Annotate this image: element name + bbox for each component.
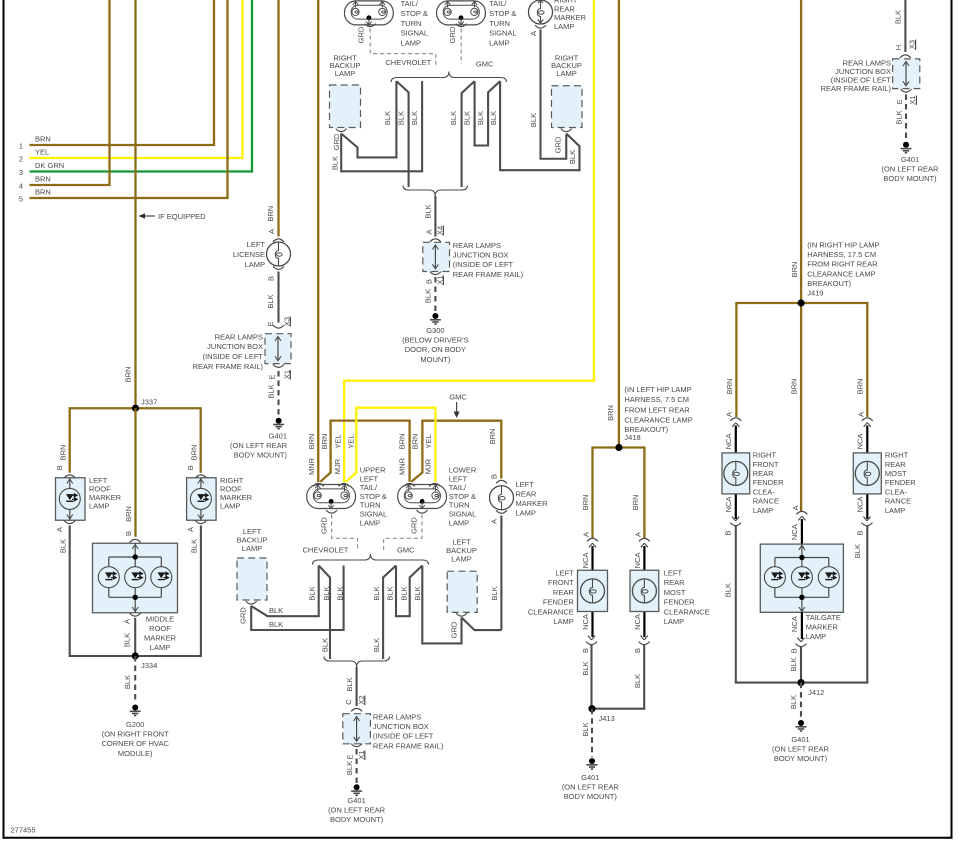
svg-text:TAILGATE: TAILGATE [806,613,841,622]
wire 1 BRN [30,0,215,145]
svg-text:A: A [856,412,865,417]
svg-text:LEFT: LEFT [360,474,379,483]
svg-text:TAIL/: TAIL/ [401,0,419,8]
svg-text:JUNCTION BOX: JUNCTION BOX [453,251,509,260]
svg-text:BLK: BLK [122,633,131,647]
svg-text:LAMP: LAMP [242,544,262,553]
svg-text:REAR: REAR [885,460,906,469]
svg-text:BLK: BLK [449,111,458,125]
svg-text:BLK: BLK [489,111,498,125]
svg-text:REAR FRAME RAIL): REAR FRAME RAIL) [193,362,264,371]
svg-text:BLK: BLK [413,586,422,600]
svg-text:A: A [186,527,195,532]
svg-text:LAMP: LAMP [554,22,574,31]
connectors B right pair [730,517,741,526]
svg-text:REAR: REAR [664,578,685,587]
svg-text:H: H [894,45,903,50]
connector box1 bottom [273,364,284,367]
wire BLK gmc jumper U [475,81,501,145]
svg-text:A: A [55,527,64,532]
svg-text:BRN: BRN [307,434,316,450]
wire BRN J419 branches [736,303,867,417]
wire YEL jumper lamp1-lamp2 [346,408,436,482]
svg-text:DOOR, ON BODY: DOOR, ON BODY [405,345,466,354]
svg-text:(ON LEFT REAR: (ON LEFT REAR [328,806,386,815]
connector right roof top [195,475,206,478]
svg-text:(INSIDE OF LEFT: (INSIDE OF LEFT [203,352,264,361]
wire BRN jumper lamp1-lamp2 (chevrolet) [320,421,409,482]
svg-text:X1: X1 [908,95,917,104]
svg-text:GRD: GRD [319,517,328,534]
svg-text:BRN: BRN [58,445,67,461]
lamp TAIL/STOP & TURN SIGNAL LAMP (chevrolet) [345,1,394,25]
svg-text:A: A [267,229,276,234]
svg-text:A: A [424,229,433,234]
svg-text:GMC: GMC [397,546,415,555]
svg-text:CLEA-: CLEA- [885,487,908,496]
svg-text:TAIL/: TAIL/ [360,483,378,492]
svg-text:LEFT: LEFT [555,569,574,578]
junction box REAR LAMPS JUNCTION BOX (center) [423,242,450,271]
svg-text:FROM LEFT REAR: FROM LEFT REAR [624,405,690,414]
svg-text:RANCE: RANCE [885,497,911,506]
node J412 [797,679,804,686]
node J418 [615,444,622,451]
wire BLK dashed to G401 (J412) [800,683,802,719]
wire 5 BRN [30,0,228,198]
wire BLK tailgate to J412 [800,647,802,683]
svg-text:TURN: TURN [489,19,510,28]
wire BLK J334 bus [70,526,201,657]
wire BLK gmc jumper U (middle) [396,566,422,617]
svg-text:MARKER: MARKER [516,499,549,508]
svg-text:CLEARANCE LAMP: CLEARANCE LAMP [624,416,692,425]
ground G401 (J412) [796,720,807,731]
svg-text:BLK: BLK [189,539,198,553]
connector license top [273,239,284,242]
svg-text:BLK: BLK [372,638,381,652]
svg-text:GRD: GRD [448,26,457,43]
svg-text:MODULE): MODULE) [118,749,153,758]
svg-text:BLK: BLK [895,110,904,124]
ground G401 (J413) [587,758,598,769]
svg-text:MOUNT): MOUNT) [420,355,450,364]
svg-text:B: B [856,530,865,535]
svg-text:BRN: BRN [606,405,615,421]
wire GRD backup-left to brace [251,566,343,631]
svg-text:LEFT: LEFT [516,480,535,489]
svg-text:BLK: BLK [386,586,395,600]
wire BRN J418 branches [593,448,645,540]
svg-text:FENDER: FENDER [753,478,784,487]
svg-text:B: B [633,648,642,653]
svg-text:A: A [582,532,591,537]
svg-text:FENDER: FENDER [543,598,574,607]
svg-text:E: E [346,754,355,759]
svg-text:BLK: BLK [123,675,132,689]
wire BLK chevy 2 [396,81,408,187]
svg-text:LAMP: LAMP [360,518,380,527]
svg-text:NCA: NCA [856,434,865,450]
ground G401 (top right) [901,142,912,153]
svg-text:NCA: NCA [633,614,642,630]
wire BLK to J413 [590,645,592,709]
wire GRD dashed lamp A [370,29,436,67]
svg-text:MARKER: MARKER [554,13,587,22]
svg-text:B: B [124,531,133,536]
lamp RIGHT REAR MOST FENDER CLEARANCE LAMP [853,453,881,494]
svg-text:MARKER: MARKER [806,623,839,632]
svg-text:J337: J337 [141,398,157,407]
svg-text:BRN: BRN [631,495,640,511]
wire 3 DK GRN [30,0,253,172]
svg-text:(IN LEFT HIP LAMP: (IN LEFT HIP LAMP [624,385,691,394]
svg-text:G401: G401 [791,735,809,744]
svg-text:(ON LEFT REAR: (ON LEFT REAR [230,441,288,450]
connector GRD lamp1 [326,510,337,513]
svg-text:LAMP: LAMP [451,555,471,564]
svg-text:BLK: BLK [893,10,902,24]
svg-text:BLK: BLK [336,586,345,600]
svg-text:YEL: YEL [35,148,49,157]
svg-text:NCA: NCA [724,434,733,450]
connector GRD lamp B [456,24,467,27]
lamp RIGHT ROOF MARKER LAMP [187,478,217,521]
connectors B left pair [586,636,597,645]
svg-text:BRN: BRN [189,445,198,461]
svg-text:RIGHT: RIGHT [885,451,909,460]
svg-text:BLK: BLK [307,586,316,600]
svg-text:BLK: BLK [476,111,485,125]
connector box4 bottom [351,744,362,747]
svg-text:3: 3 [19,168,23,177]
svg-text:TURN: TURN [360,501,381,510]
svg-text:A: A [489,519,498,524]
svg-text:IF EQUIPPED: IF EQUIPPED [158,212,206,221]
svg-text:YEL: YEL [424,434,433,448]
svg-text:BLK: BLK [490,586,499,600]
svg-text:LEFT: LEFT [449,474,468,483]
svg-text:STOP &: STOP & [360,492,387,501]
wire GRD dashed lamp2 [384,515,422,552]
junction box REAR LAMPS JUNCTION BOX (left) [265,334,291,364]
svg-text:LAMP: LAMP [245,260,265,269]
svg-text:J412: J412 [808,688,824,697]
svg-text:YEL: YEL [346,434,355,448]
svg-text:BLK: BLK [269,606,283,615]
svg-text:BRN: BRN [35,188,51,197]
svg-text:G401: G401 [581,773,599,782]
svg-text:JUNCTION BOX: JUNCTION BOX [373,722,429,731]
svg-text:BLK: BLK [58,539,67,553]
svg-text:277455: 277455 [11,826,36,835]
wire BLK dashed to G401 (J413) [591,709,593,757]
svg-text:CLEA-: CLEA- [753,487,776,496]
svg-text:BLK: BLK [322,586,331,600]
svg-text:(ON LEFT REAR: (ON LEFT REAR [882,165,940,174]
svg-text:YEL: YEL [333,434,342,448]
svg-text:CLEARANCE: CLEARANCE [664,607,710,616]
lamp TAILGATE MARKER LAMP [760,544,843,612]
svg-text:(IN RIGHT HIP LAMP: (IN RIGHT HIP LAMP [807,241,879,250]
svg-text:REAR LAMPS: REAR LAMPS [453,241,501,250]
svg-text:B: B [266,276,275,281]
svg-text:A: A [725,412,734,417]
brace middle bottom merge [324,657,390,668]
svg-text:(ON RIGHT FRONT: (ON RIGHT FRONT [102,730,169,739]
svg-text:STOP &: STOP & [401,9,428,18]
connector middle roof bottom [130,613,141,616]
wire BLK dashed to G401 (bottom middle) [356,749,358,783]
svg-text:JUNCTION BOX: JUNCTION BOX [207,342,263,351]
lamp LEFT REAR MOST FENDER CLEARANCE LAMP [630,570,659,611]
svg-text:(INSIDE OF LEFT: (INSIDE OF LEFT [373,732,434,741]
svg-text:(ON LEFT REAR: (ON LEFT REAR [772,745,830,754]
svg-text:SIGNAL: SIGNAL [401,29,429,38]
svg-text:J418: J418 [624,433,640,442]
svg-text:5: 5 [19,195,23,204]
svg-text:REAR LAMPS: REAR LAMPS [215,332,263,341]
svg-text:BLK: BLK [383,111,392,125]
connector left roof top [64,475,75,478]
svg-text:A: A [633,532,642,537]
svg-text:GMC: GMC [449,393,467,402]
svg-text:MJR: MJR [333,458,342,474]
svg-text:A: A [122,619,131,624]
wire BLK chevy2 (middle) [319,566,330,660]
svg-text:BLK: BLK [266,294,275,308]
svg-text:BLK: BLK [424,289,433,303]
lamp LEFT FRONT REAR FENDER CLEARANCE LAMP [578,570,608,611]
svg-text:BLK: BLK [581,722,590,736]
wire BLK dashed to G200 [134,656,136,702]
wire GRD backup1 to brace [341,81,396,157]
svg-text:BRN: BRN [266,206,275,222]
svg-text:RIGHT: RIGHT [753,451,777,460]
svg-text:CHEVROLET: CHEVROLET [385,58,431,67]
svg-text:LAMP: LAMP [885,506,905,515]
wire J337 branch bus [70,408,201,472]
svg-text:FROM RIGHT REAR: FROM RIGHT REAR [807,260,878,269]
svg-text:BRN: BRN [35,135,51,144]
svg-text:BLK: BLK [396,111,405,125]
svg-text:FENDER: FENDER [885,478,916,487]
svg-text:TAIL/: TAIL/ [489,0,507,8]
svg-text:GRD: GRD [332,133,341,150]
svg-text:REAR: REAR [553,588,574,597]
wire 4 BRN [30,0,110,185]
svg-text:DK GRN: DK GRN [35,161,64,170]
lamp RIGHT REAR MARKER LAMP (top) [529,0,553,24]
wire NCA to tailgate lamp [801,519,803,544]
svg-text:LAMP: LAMP [220,502,240,511]
lamp LEFT REAR MARKER LAMP [496,480,507,483]
svg-text:B: B [424,279,433,284]
svg-text:SIGNAL: SIGNAL [449,510,477,519]
svg-text:(BELOW DRIVER'S: (BELOW DRIVER'S [402,336,468,345]
svg-text:REAR FRAME RAIL): REAR FRAME RAIL) [453,270,524,279]
svg-text:1: 1 [19,142,23,151]
svg-text:C: C [344,699,353,705]
svg-text:E: E [267,374,276,379]
svg-text:BLK: BLK [267,384,276,398]
wire BRN to middle roof marker [134,408,136,536]
svg-text:LAMP: LAMP [806,632,826,641]
svg-text:BODY MOUNT): BODY MOUNT) [774,754,828,763]
svg-text:BLK: BLK [345,761,354,775]
svg-text:BRN: BRN [124,506,133,522]
svg-text:BLK: BLK [529,113,538,127]
wire BLK gmc 1 [462,81,475,187]
lamp LOWER LEFT TAIL/STOP & TURN SIGNAL LAMP [398,485,447,509]
connector B tailgate [796,638,807,647]
svg-text:(INSIDE OF LEFT: (INSIDE OF LEFT [453,260,514,269]
svg-text:BLK: BLK [372,586,381,600]
svg-text:BRN: BRN [790,379,799,395]
svg-text:B: B [723,530,732,535]
svg-text:G300: G300 [426,326,444,335]
svg-text:NCA: NCA [856,497,865,513]
svg-text:MIDDLE: MIDDLE [146,615,174,624]
svg-text:BRN: BRN [123,367,132,383]
wire BLK marker to backup2 [541,30,567,159]
svg-text:BLK: BLK [581,661,590,675]
svg-text:FENDER: FENDER [664,598,695,607]
lamp UPPER LEFT TAIL/STOP & TURN SIGNAL LAMP [307,485,356,509]
wire BRN trunk to J337 [134,0,136,408]
svg-text:BLK: BLK [269,620,283,629]
svg-text:LAMP: LAMP [335,69,355,78]
svg-text:BRN: BRN [581,495,590,511]
svg-text:FRONT: FRONT [753,460,779,469]
lamp LEFT LICENSE LAMP [267,242,291,266]
ground G401 (bottom middle) [351,784,362,795]
svg-text:BODY MOUNT): BODY MOUNT) [234,451,288,460]
wire GRD dashed lamp1 [332,515,358,552]
ground G300 [430,313,441,324]
svg-text:BODY MOUNT): BODY MOUNT) [883,174,937,183]
svg-text:REAR FRAME RAIL): REAR FRAME RAIL) [373,741,444,750]
svg-text:HARNESS, 17.5 CM: HARNESS, 17.5 CM [807,250,876,259]
wire BLK middle roof to J334 [134,618,136,656]
wire BLK dashed to G300 [434,277,436,312]
svg-text:LICENSE: LICENSE [233,250,265,259]
wire BRN gmc segment lamp2 to rear marker [411,421,501,482]
svg-text:REAR FRAME RAIL): REAR FRAME RAIL) [821,84,892,93]
svg-text:J413: J413 [599,714,615,723]
svg-text:SIGNAL: SIGNAL [489,29,517,38]
connector GRD lamp A [365,24,376,27]
lamp MIDDLE ROOF MARKER LAMP [93,543,178,613]
svg-text:CHEVROLET: CHEVROLET [303,546,349,555]
svg-text:LAMP: LAMP [89,502,109,511]
svg-text:CORNER OF HVAC: CORNER OF HVAC [102,739,170,748]
node J334 [132,652,139,659]
svg-text:BRN: BRN [410,434,419,450]
svg-text:CLEARANCE LAMP: CLEARANCE LAMP [807,269,875,278]
junction box REAR LAMPS JUNCTION BOX (top right) [893,59,920,89]
svg-text:GMC: GMC [476,60,494,69]
svg-text:GRD: GRD [238,607,247,624]
svg-text:LAMP: LAMP [489,38,509,47]
wire BLK right junction chain [904,0,906,52]
svg-text:LAMP: LAMP [753,506,773,515]
wire BLK gmc1 (middle) [383,566,396,660]
ground G401 (license chain) [273,418,284,429]
wire GRD dashed lamp B [460,29,462,65]
wire BLK to junction box C/X2 [356,667,358,706]
wire BLK right pair to J412 [736,526,868,683]
wire BRN to J419 [800,0,802,303]
svg-text:(ON LEFT REAR: (ON LEFT REAR [562,782,620,791]
svg-text:LAMP: LAMP [553,617,573,626]
svg-text:CLEARANCE: CLEARANCE [528,607,574,616]
svg-text:B: B [581,648,590,653]
svg-text:G401: G401 [269,431,287,440]
connector license bottom [273,266,284,269]
svg-text:LAMP: LAMP [556,69,576,78]
connector box2 bottom [430,272,441,275]
svg-text:HARNESS, 7.5 CM: HARNESS, 7.5 CM [624,395,689,404]
svg-text:MOST: MOST [664,588,686,597]
svg-text:REAR: REAR [753,469,774,478]
svg-text:BLK: BLK [568,150,577,164]
svg-text:B: B [55,465,64,470]
svg-text:J419: J419 [807,289,823,298]
svg-text:BLK: BLK [853,544,862,558]
svg-text:SIGNAL: SIGNAL [360,510,388,519]
svg-text:G200: G200 [126,720,144,729]
svg-text:BLK: BLK [345,677,354,691]
node J419 [798,299,805,306]
svg-text:4: 4 [19,182,23,191]
svg-text:MNR: MNR [397,457,406,475]
svg-text:RANCE: RANCE [753,497,779,506]
node J337 [132,405,139,412]
svg-text:BRN: BRN [725,379,734,395]
svg-text:2: 2 [19,155,23,164]
svg-text:GRD: GRD [553,136,562,153]
brace bottom merge [403,186,467,197]
svg-text:BODY MOUNT): BODY MOUNT) [330,815,384,824]
wire BLK backup-right to marker [462,618,502,631]
lamp LEFT ROOF MARKER LAMP [56,478,86,521]
wire BLK to junction box A/X4 [434,196,436,237]
wire NCA through left clearance lamps [591,546,593,637]
wire BRN to license lamp [277,0,279,237]
svg-text:MNR: MNR [307,457,316,475]
svg-text:A: A [529,31,538,36]
svg-text:A: A [791,505,800,510]
svg-text:BRN: BRN [320,434,329,450]
svg-text:LAMP: LAMP [150,643,170,652]
svg-text:LEFT: LEFT [247,240,266,249]
svg-text:BLK: BLK [399,586,408,600]
svg-text:BLK: BLK [330,156,339,170]
ground G200 [130,705,141,716]
wire BLK backup2 to brace [500,81,579,170]
IF EQUIPPED arrow [139,213,146,219]
wire YEL feed lamp1 MJR [344,0,594,482]
lamp TAIL/STOP & TURN SIGNAL LAMP (gmc) [437,1,486,25]
wire GRD backup-right to brace [422,566,461,644]
svg-text:BRN: BRN [35,175,51,184]
svg-text:TURN: TURN [449,501,470,510]
svg-text:REAR: REAR [516,489,537,498]
wire BRN feed lamp1 MNR [317,0,319,482]
svg-text:ROOF: ROOF [149,624,171,633]
svg-text:NCA: NCA [633,552,642,568]
